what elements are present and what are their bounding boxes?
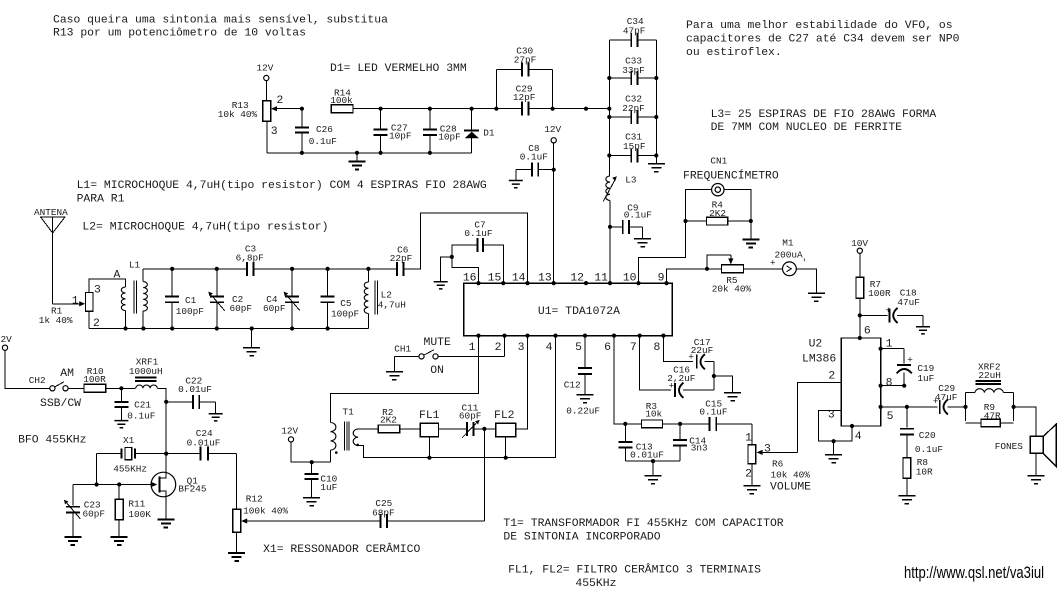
svg-text:13: 13 bbox=[538, 273, 552, 285]
svg-text:C21: C21 bbox=[134, 400, 151, 411]
connector CN1 bbox=[683, 156, 779, 196]
svg-text:8: 8 bbox=[886, 377, 893, 389]
svg-text:68pF: 68pF bbox=[372, 507, 395, 518]
variable capacitor C23 bbox=[64, 485, 105, 538]
svg-text:2: 2 bbox=[828, 371, 835, 383]
svg-text:10k: 10k bbox=[645, 409, 662, 420]
svg-text:6,8pF: 6,8pF bbox=[236, 253, 264, 264]
capacitor C5 bbox=[321, 267, 360, 331]
inductor L3 bbox=[603, 175, 637, 202]
capacitor C10 bbox=[305, 460, 338, 498]
svg-text:U1= TDA1072A: U1= TDA1072A bbox=[538, 306, 620, 318]
svg-text:10pF: 10pF bbox=[438, 131, 461, 142]
svg-text:AM: AM bbox=[60, 368, 74, 380]
capacitor C24 bbox=[166, 428, 237, 460]
svg-text:Caso queira uma sintonia mais: Caso queira uma sintonia mais sensível, … bbox=[53, 14, 388, 26]
svg-text:100k: 100k bbox=[330, 95, 353, 106]
svg-text:R13 por um potenciômetro de 10: R13 por um potenciômetro de 10 voltas bbox=[53, 28, 306, 40]
resistor R14 bbox=[330, 88, 380, 113]
capacitor C29 (VFO) bbox=[496, 84, 554, 116]
wire bbox=[381, 108, 430, 110]
svg-text:22uF: 22uF bbox=[691, 345, 714, 356]
resistor R9 bbox=[966, 402, 1014, 427]
capacitor C29 (output) bbox=[933, 383, 968, 414]
svg-text:0.1uF: 0.1uF bbox=[699, 406, 727, 417]
variable capacitor C4 bbox=[263, 267, 300, 331]
resistor R2 bbox=[358, 407, 420, 433]
svg-text:D1= LED VERMELHO 3MM: D1= LED VERMELHO 3MM bbox=[330, 63, 467, 75]
svg-text:1uF: 1uF bbox=[917, 373, 934, 384]
ground (C16/C17) bbox=[724, 393, 741, 401]
svg-text:+: + bbox=[688, 351, 694, 362]
svg-text:BFO 455KHz: BFO 455KHz bbox=[18, 434, 86, 446]
svg-text:2: 2 bbox=[745, 468, 752, 480]
inductor XRF1 bbox=[129, 356, 163, 388]
svg-text:10k 40%: 10k 40% bbox=[771, 470, 811, 481]
svg-text:16: 16 bbox=[463, 273, 477, 285]
svg-text:U2: U2 bbox=[809, 338, 823, 350]
wire 12V to pin 13 bbox=[553, 143, 555, 283]
antenna ANTENA bbox=[34, 207, 68, 304]
svg-text:2K2: 2K2 bbox=[380, 415, 397, 426]
wire C30 riser left bbox=[495, 69, 497, 108]
svg-text:12V: 12V bbox=[281, 425, 298, 436]
svg-text:C5: C5 bbox=[340, 298, 352, 309]
svg-text:R11: R11 bbox=[128, 498, 145, 509]
note: L3 annotation bbox=[711, 109, 937, 134]
svg-text:60pF: 60pF bbox=[263, 303, 286, 314]
svg-text:0.1uF: 0.1uF bbox=[127, 410, 155, 421]
U1 bottom pin dots and numbers bbox=[469, 334, 666, 354]
potentiometer R13 bbox=[218, 95, 302, 138]
speaker FONES bbox=[995, 424, 1056, 476]
svg-text:LM386: LM386 bbox=[802, 353, 836, 365]
resistor R10 bbox=[68, 366, 135, 392]
svg-text:CH1: CH1 bbox=[394, 344, 411, 355]
svg-text:0.01uF: 0.01uF bbox=[178, 384, 212, 395]
svg-text:100pF: 100pF bbox=[331, 309, 359, 320]
capacitor C15 bbox=[680, 398, 752, 431]
svg-text:SSB/CW: SSB/CW bbox=[40, 398, 81, 410]
note: VFO stability annotation bbox=[686, 20, 960, 59]
svg-text:FL2: FL2 bbox=[494, 410, 515, 422]
capacitor C34 bbox=[609, 16, 656, 47]
svg-text:T1: T1 bbox=[343, 406, 355, 417]
capacitor C22 bbox=[164, 375, 216, 413]
ground (cap bank) bbox=[648, 156, 665, 172]
ground (C18) bbox=[916, 327, 930, 334]
potentiometer R1 bbox=[39, 279, 126, 330]
capacitor C18 bbox=[860, 288, 923, 327]
svg-text:VOLUME: VOLUME bbox=[770, 481, 811, 493]
svg-text:12: 12 bbox=[570, 273, 584, 285]
node 2V terminal bbox=[1, 334, 50, 388]
svg-text:FL1: FL1 bbox=[419, 410, 440, 422]
svg-text:27pF: 27pF bbox=[514, 55, 537, 66]
svg-text:L3: L3 bbox=[625, 175, 637, 186]
svg-text:1: 1 bbox=[72, 295, 79, 307]
ground (CH1) bbox=[386, 372, 403, 380]
wire bbox=[472, 108, 497, 110]
wire bbox=[430, 108, 472, 110]
svg-text:DE 7MM COM NUCLEO DE FERRITE: DE 7MM COM NUCLEO DE FERRITE bbox=[711, 122, 903, 134]
switch CH2 bbox=[29, 368, 81, 410]
wire M1 to ground bbox=[796, 269, 816, 293]
variable capacitor C11 bbox=[439, 402, 496, 437]
svg-text:3: 3 bbox=[764, 443, 771, 455]
svg-text:L1= MICROCHOQUE 4,7uH(tipo res: L1= MICROCHOQUE 4,7uH(tipo resistor) COM… bbox=[77, 180, 487, 192]
wire FL2 to pin 3 bbox=[516, 336, 528, 429]
svg-text:PARA R1: PARA R1 bbox=[77, 193, 125, 205]
capacitor C16 bbox=[640, 336, 714, 398]
ground (R8) bbox=[898, 496, 915, 504]
ground (CN1/R4) bbox=[742, 240, 759, 248]
ground (C8) bbox=[509, 181, 523, 188]
resistor R8 bbox=[903, 457, 933, 496]
wire top RF rail bbox=[143, 268, 247, 270]
wire C25 riser bbox=[483, 429, 485, 521]
svg-text:1: 1 bbox=[469, 342, 476, 354]
svg-text:ou estiroflex.: ou estiroflex. bbox=[686, 47, 782, 59]
wire pin 1 to T1 bbox=[331, 336, 479, 423]
wire U2 pin 8 bbox=[879, 377, 907, 389]
capacitor C8 bbox=[516, 143, 556, 180]
svg-text:R12: R12 bbox=[246, 494, 263, 505]
svg-text:ON: ON bbox=[430, 365, 444, 377]
svg-text:CH2: CH2 bbox=[29, 375, 46, 386]
svg-text:+: + bbox=[933, 396, 939, 407]
svg-text:M1: M1 bbox=[782, 237, 794, 248]
wire pin 6 to R3 node bbox=[614, 336, 625, 424]
svg-text:1: 1 bbox=[886, 339, 893, 351]
svg-text:22uH: 22uH bbox=[978, 370, 1001, 381]
capacitor C31 bbox=[607, 132, 658, 163]
wire C16/C17 join and ground tap bbox=[712, 362, 733, 393]
svg-text:+: + bbox=[669, 381, 675, 392]
svg-text:L3= 25 ESPIRAS DE FIO 28AWG FO: L3= 25 ESPIRAS DE FIO 28AWG FORMA bbox=[711, 109, 937, 121]
capacitor C25 bbox=[261, 498, 485, 528]
capacitor C33 bbox=[607, 56, 658, 85]
capacitor C17 bbox=[663, 336, 714, 370]
wire U2 pin 3 bbox=[818, 410, 841, 442]
svg-text:+: + bbox=[885, 305, 891, 316]
svg-text:0.1uF: 0.1uF bbox=[464, 228, 492, 239]
capacitor C14 bbox=[673, 424, 708, 461]
resistor R3 bbox=[623, 401, 682, 428]
node 12V supply terminal (R13) bbox=[257, 63, 274, 101]
svg-text:47pF: 47pF bbox=[623, 25, 646, 36]
filter FL1 bbox=[419, 410, 440, 460]
svg-text:5: 5 bbox=[575, 342, 582, 354]
svg-text:3: 3 bbox=[828, 410, 835, 422]
ground (R12) bbox=[228, 553, 245, 561]
annotation T1 bbox=[503, 518, 783, 543]
potentiometer R6 VOLUME bbox=[745, 424, 811, 494]
svg-text:C20: C20 bbox=[919, 430, 936, 441]
svg-text:4: 4 bbox=[855, 431, 862, 443]
svg-text:8: 8 bbox=[654, 342, 661, 354]
ground (R6) bbox=[743, 486, 760, 494]
wire VFO bank right rail bbox=[655, 40, 657, 155]
svg-text:0.1uF: 0.1uF bbox=[915, 444, 943, 455]
svg-text:http://www.qsl.net/va3iul: http://www.qsl.net/va3iul bbox=[904, 563, 1044, 582]
svg-text:3: 3 bbox=[94, 284, 101, 296]
svg-text:11: 11 bbox=[594, 273, 608, 285]
svg-text:3: 3 bbox=[271, 126, 278, 138]
wire tank to speaker bbox=[1012, 405, 1037, 437]
transistor Q1 BF245 bbox=[151, 454, 207, 520]
wire XRF1 right down to X1 node bbox=[157, 388, 166, 453]
svg-text:9: 9 bbox=[658, 273, 665, 285]
ground (C12) bbox=[577, 395, 594, 403]
svg-text:20k 40%: 20k 40% bbox=[712, 284, 752, 295]
ground (top filter) bbox=[349, 151, 366, 170]
svg-text:1000uH: 1000uH bbox=[129, 366, 163, 377]
svg-text:X1: X1 bbox=[123, 435, 135, 446]
ground (R11) bbox=[111, 537, 128, 545]
wire C30 riser right bbox=[552, 69, 554, 108]
svg-text:22pF: 22pF bbox=[390, 253, 413, 264]
svg-text:1uF: 1uF bbox=[320, 482, 337, 493]
wire U2 pin 5 bbox=[879, 405, 938, 423]
svg-text:2: 2 bbox=[277, 95, 284, 107]
wire bottom RF rail bbox=[89, 328, 368, 330]
capacitor C20 bbox=[900, 407, 943, 458]
svg-text:33pF: 33pF bbox=[622, 65, 645, 76]
svg-text:10R: 10R bbox=[916, 467, 933, 478]
svg-text:455KHz: 455KHz bbox=[575, 578, 616, 590]
ground (C23) bbox=[64, 537, 81, 545]
svg-text:+: + bbox=[907, 355, 913, 366]
svg-text:100R: 100R bbox=[83, 374, 106, 385]
svg-text:CN1: CN1 bbox=[710, 156, 727, 167]
svg-text:4: 4 bbox=[546, 342, 553, 354]
svg-text:2K2: 2K2 bbox=[709, 208, 726, 219]
svg-text:7: 7 bbox=[630, 342, 637, 354]
diode D1 (LED) bbox=[464, 107, 495, 153]
resistor R11 bbox=[115, 485, 151, 538]
ground (C9) bbox=[634, 239, 651, 247]
svg-text:2: 2 bbox=[495, 342, 502, 354]
inductor XRF2 bbox=[966, 361, 1014, 421]
svg-text:10pF: 10pF bbox=[389, 130, 412, 141]
capacitor C12 bbox=[564, 336, 600, 417]
svg-text:T1= TRANSFORMADOR FI 455KHz CO: T1= TRANSFORMADOR FI 455KHz COM CAPACITO… bbox=[503, 518, 783, 530]
capacitor C21 bbox=[114, 386, 155, 421]
wire pin 10 riser bbox=[639, 190, 712, 283]
resistor R7 bbox=[856, 277, 891, 338]
potentiometer R5 bbox=[705, 255, 752, 294]
svg-text:6: 6 bbox=[864, 325, 871, 337]
svg-text:4,7uH: 4,7uH bbox=[378, 300, 406, 311]
capacitor C9 bbox=[608, 203, 652, 239]
resistor R4 bbox=[683, 199, 753, 225]
svg-text:DE SINTONIA INCORPORADO: DE SINTONIA INCORPORADO bbox=[503, 531, 660, 543]
variable capacitor C2 bbox=[208, 267, 252, 331]
svg-text:12V: 12V bbox=[257, 63, 274, 74]
capacitor C6 bbox=[390, 244, 413, 276]
capacitor C7 bbox=[441, 220, 504, 284]
svg-text:1: 1 bbox=[745, 433, 752, 445]
node 12V supply terminal (pin13) bbox=[544, 124, 561, 143]
potentiometer R12 bbox=[233, 454, 289, 553]
svg-text:C12: C12 bbox=[564, 380, 581, 391]
ground (C10) bbox=[303, 498, 320, 506]
wire bottom rail bbox=[267, 152, 472, 154]
svg-text:60pF: 60pF bbox=[230, 303, 253, 314]
note: sensitivity annotation bbox=[53, 14, 388, 39]
svg-text:455KHz: 455KHz bbox=[113, 464, 147, 475]
svg-text:2V: 2V bbox=[1, 334, 13, 345]
ground (C13/C14) bbox=[645, 476, 662, 484]
wire C13/C14 ground rail bbox=[625, 459, 680, 476]
svg-text:X1= RESSONADOR CERÂMICO: X1= RESSONADOR CERÂMICO bbox=[263, 542, 420, 556]
svg-text:200uA: 200uA bbox=[775, 250, 804, 261]
svg-text:47uF: 47uF bbox=[897, 297, 920, 308]
wire BFO base rail bbox=[73, 484, 156, 486]
ground (C21) bbox=[114, 421, 128, 428]
ground (Q1 source) bbox=[157, 519, 174, 527]
svg-text:D1: D1 bbox=[483, 128, 495, 139]
svg-text:100R: 100R bbox=[868, 288, 891, 299]
ground (RF rail) bbox=[243, 326, 260, 355]
wire R13 bottom to rail bbox=[266, 121, 268, 153]
wire U2 pin 4 bbox=[832, 424, 862, 455]
wire X1 left leg down bbox=[96, 454, 98, 485]
svg-text:0.1uF: 0.1uF bbox=[309, 136, 337, 147]
svg-text:0.01uF: 0.01uF bbox=[187, 438, 221, 449]
wire L3 to pin 11 bbox=[609, 200, 611, 283]
svg-text:C1: C1 bbox=[185, 295, 197, 306]
wire C6 to pin 14 bbox=[404, 213, 528, 283]
svg-text:R6: R6 bbox=[772, 459, 784, 470]
capacitor C27 bbox=[374, 107, 412, 155]
capacitor C19 bbox=[897, 349, 935, 386]
annotation FL1/FL2 bbox=[508, 562, 761, 589]
svg-text:L1: L1 bbox=[129, 259, 141, 270]
svg-text:12pF: 12pF bbox=[513, 92, 536, 103]
wire antenna to R1 wiper bbox=[53, 295, 86, 307]
transformer L1 bbox=[114, 259, 148, 328]
wire CN1 right down to ground bbox=[724, 190, 751, 240]
switch CH1 MUTE bbox=[394, 336, 504, 378]
capacitor C30 bbox=[496, 46, 552, 77]
capacitor C32 bbox=[607, 94, 658, 124]
wire main rail to cap bank bbox=[553, 108, 610, 110]
svg-text:Para uma melhor estabilidade d: Para uma melhor estabilidade do VFO, os bbox=[686, 20, 953, 32]
capacitor C13 bbox=[618, 424, 664, 461]
svg-text:22pF: 22pF bbox=[622, 103, 645, 114]
inductor L2 bbox=[364, 267, 406, 329]
svg-text:15: 15 bbox=[488, 273, 502, 285]
filter FL2 bbox=[494, 410, 516, 460]
ground (C22) bbox=[209, 414, 223, 421]
svg-text:0.01uF: 0.01uF bbox=[630, 450, 664, 461]
svg-text:FREQUENCÍMETRO: FREQUENCÍMETRO bbox=[683, 168, 779, 182]
svg-text:A: A bbox=[114, 270, 121, 282]
svg-text:100k 40%: 100k 40% bbox=[243, 506, 288, 517]
svg-text:0.1uF: 0.1uF bbox=[520, 151, 548, 162]
wire rail C3 to L2 bbox=[292, 268, 397, 270]
ground (U2 pins 3/4) bbox=[825, 455, 842, 463]
svg-text:10k 40%: 10k 40% bbox=[218, 109, 258, 120]
svg-text:60pF: 60pF bbox=[83, 509, 106, 520]
meter M1 bbox=[744, 237, 808, 275]
svg-text:10: 10 bbox=[623, 273, 637, 285]
capacitor C3 bbox=[236, 244, 293, 276]
svg-text:3: 3 bbox=[518, 342, 525, 354]
capacitor C1 bbox=[165, 267, 204, 331]
node 10V terminal bbox=[851, 238, 868, 277]
svg-text:12V: 12V bbox=[544, 124, 561, 135]
transformer T1 bbox=[331, 406, 360, 462]
svg-text:5: 5 bbox=[887, 411, 894, 423]
wire R6 wiper to U2 pin 2 bbox=[798, 382, 842, 452]
op-amp U2 LM386 box bbox=[802, 325, 881, 426]
wire U2 pin 1 bbox=[879, 339, 905, 351]
svg-text:1k 40%: 1k 40% bbox=[39, 315, 73, 326]
ground (C7/pin16) bbox=[434, 282, 448, 289]
U1 top pin dots and numbers bbox=[463, 273, 669, 286]
svg-text:100K: 100K bbox=[128, 509, 151, 520]
ground (speaker) bbox=[1028, 476, 1045, 484]
svg-text:0.1uF: 0.1uF bbox=[624, 210, 652, 221]
svg-text:15pF: 15pF bbox=[623, 141, 646, 152]
wire VFO bank left rail bbox=[608, 40, 610, 176]
svg-text:BF245: BF245 bbox=[178, 484, 207, 495]
wire bbox=[265, 81, 267, 101]
svg-text:L2= MICROCHOQUE 4,7uH(tipo res: L2= MICROCHOQUE 4,7uH(tipo resistor) bbox=[82, 221, 328, 233]
capacitor C28 bbox=[423, 107, 461, 155]
svg-text:FL1, FL2= FILTRO CERÂMICO 3 TE: FL1, FL2= FILTRO CERÂMICO 3 TERMINAIS bbox=[508, 562, 761, 576]
svg-text:100pF: 100pF bbox=[176, 306, 204, 317]
crystal X1 bbox=[97, 435, 169, 475]
svg-text:0.22uF: 0.22uF bbox=[566, 405, 600, 416]
svg-text:6: 6 bbox=[604, 342, 611, 354]
svg-text:capacitores de C27 até C34 dev: capacitores de C27 até C34 devem ser NP0 bbox=[686, 34, 960, 46]
wire pin 9 riser bbox=[667, 269, 722, 283]
op-amp U1 TDA1072A box bbox=[464, 283, 673, 336]
node 12V supply terminal (T1) bbox=[281, 425, 330, 462]
svg-text:MUTE: MUTE bbox=[424, 337, 452, 349]
svg-text:C26: C26 bbox=[316, 124, 333, 135]
ground (M1) bbox=[808, 293, 825, 301]
wire T1 secondary bottom rail to pin 4 bbox=[358, 336, 555, 458]
svg-text:FONES: FONES bbox=[995, 441, 1024, 452]
svg-text:47R: 47R bbox=[984, 410, 1001, 421]
svg-text:3n3: 3n3 bbox=[691, 443, 708, 454]
note: L1 annotation bbox=[77, 180, 487, 205]
capacitor C26 bbox=[295, 107, 337, 155]
svg-text:60pF: 60pF bbox=[459, 410, 482, 421]
svg-text:14: 14 bbox=[512, 273, 526, 285]
